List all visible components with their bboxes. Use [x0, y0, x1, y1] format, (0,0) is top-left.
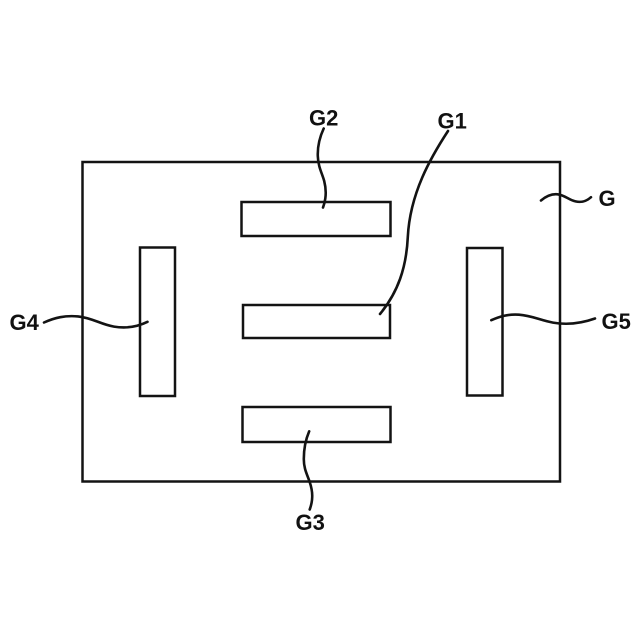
svg-text:G5: G5	[602, 309, 631, 334]
svg-text:G4: G4	[10, 310, 40, 335]
svg-text:G3: G3	[296, 510, 325, 535]
svg-text:G: G	[599, 186, 616, 211]
svg-text:G1: G1	[438, 109, 467, 134]
svg-text:G2: G2	[309, 106, 338, 131]
